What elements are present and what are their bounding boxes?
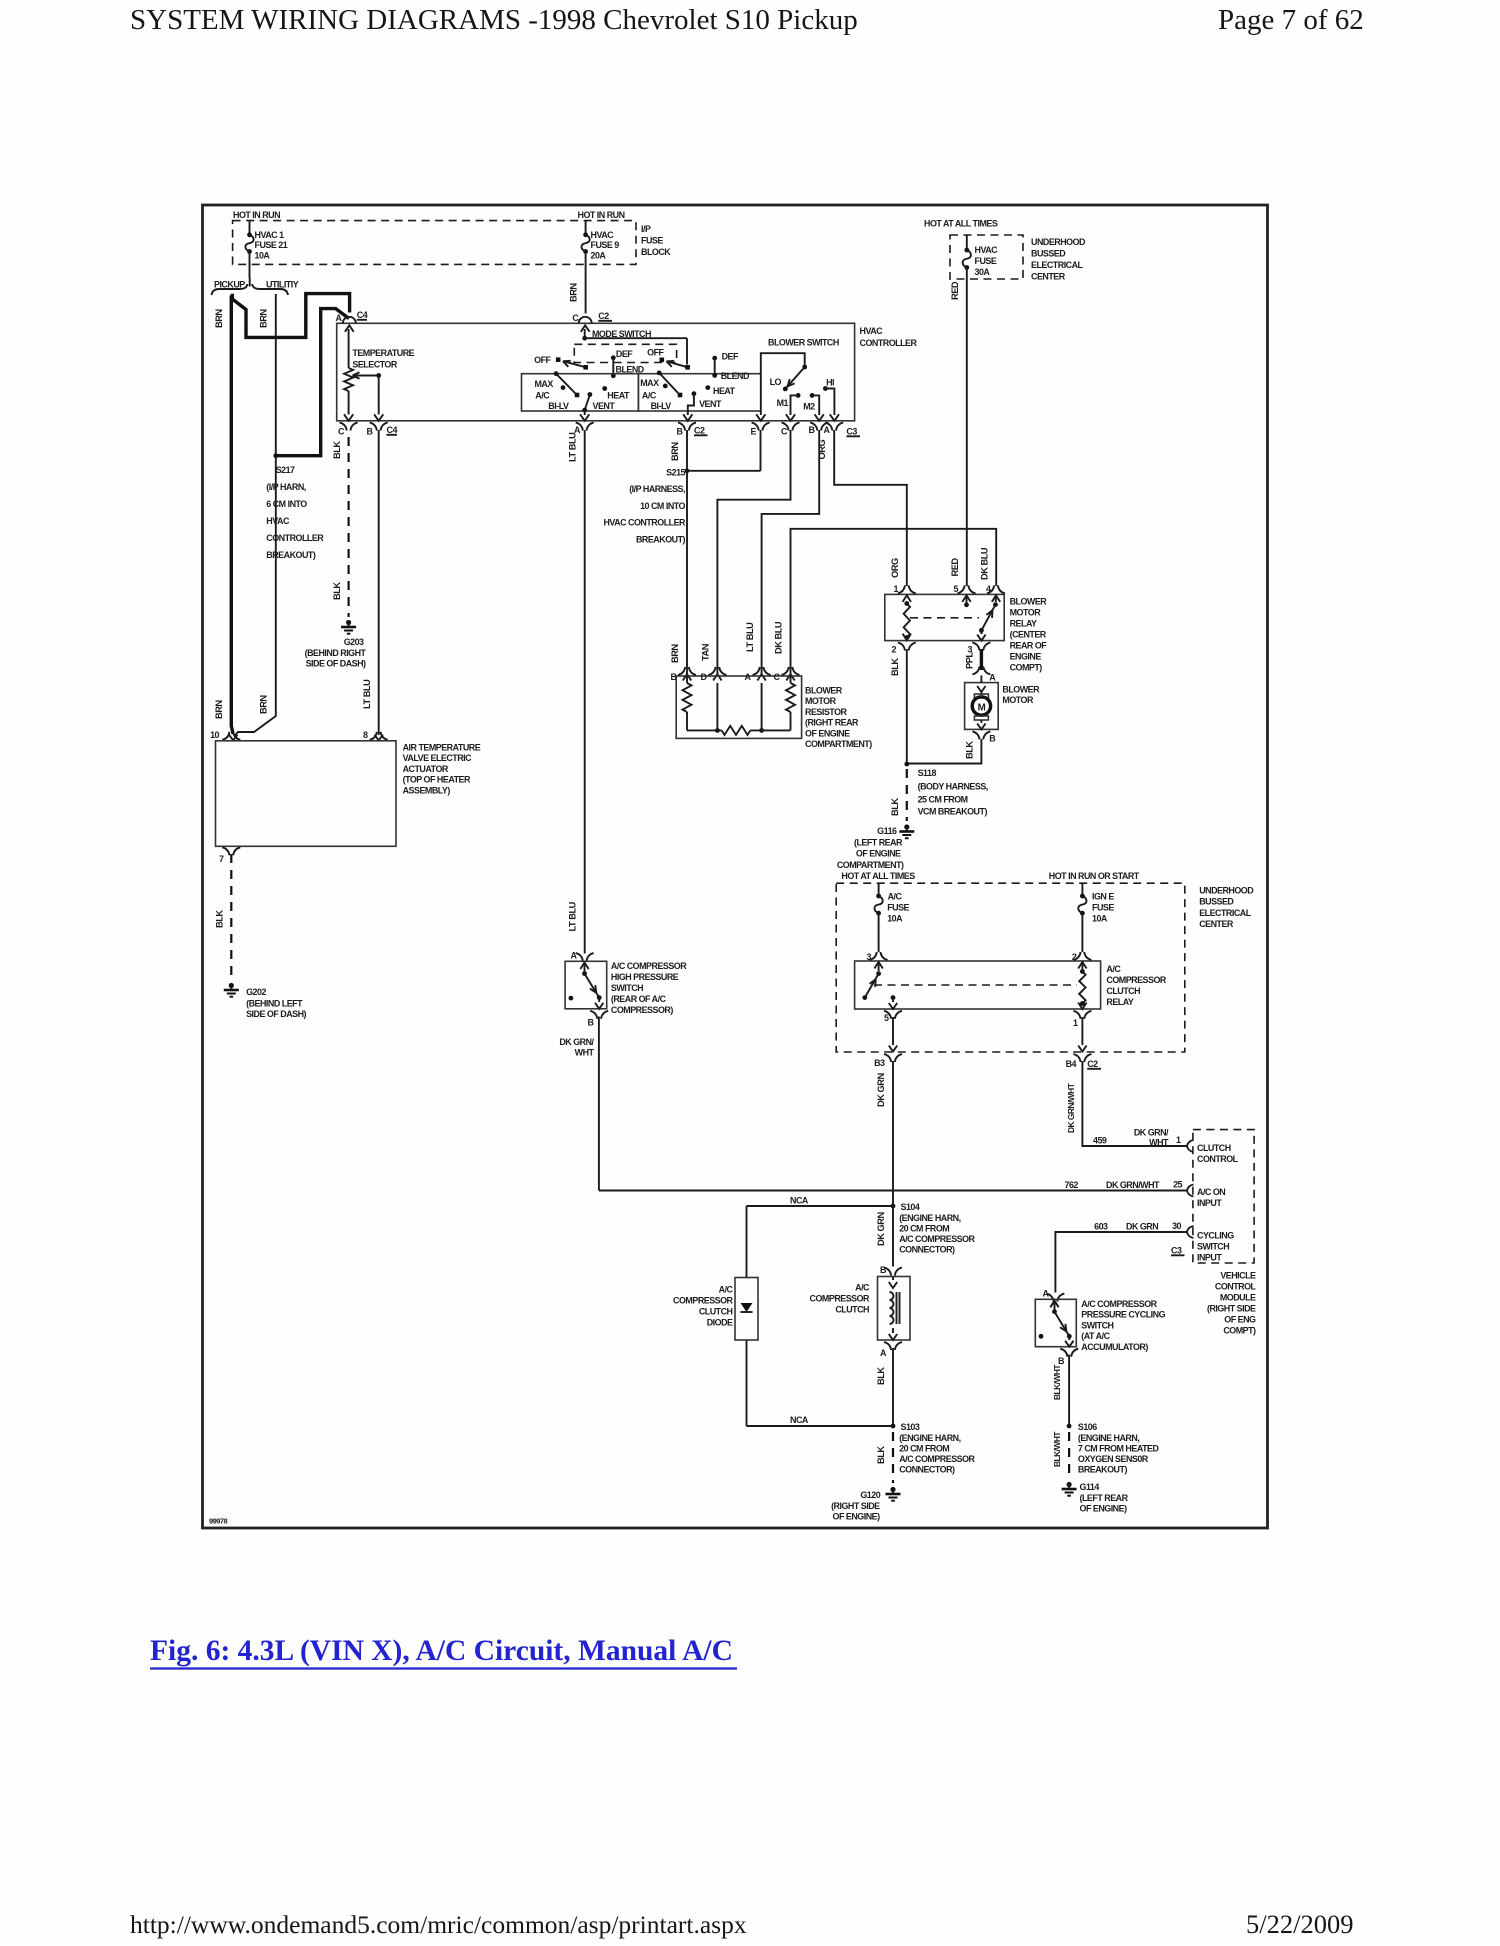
wire BLK clutch to S103: [892, 1348, 894, 1426]
VCM bracket pin25: [1187, 1185, 1194, 1197]
svg-text:S215: S215: [666, 468, 685, 478]
svg-text:HVAC: HVAC: [975, 245, 999, 255]
svg-text:INPUT: INPUT: [1197, 1253, 1222, 1263]
svg-text:B3: B3: [874, 1058, 885, 1068]
splice S215: [685, 468, 690, 473]
svg-text:20 CM FROM: 20 CM FROM: [899, 1444, 949, 1454]
pickup-utility split tick: [249, 278, 251, 287]
relay coil: [904, 601, 909, 606]
wire BLK/WHT S106 to G114: [1068, 1432, 1070, 1478]
svg-text:BLK: BLK: [332, 441, 342, 459]
svg-text:BLK: BLK: [214, 910, 224, 928]
wire BRN from C2-B with splice S215: [686, 430, 688, 674]
svg-text:S106: S106: [1078, 1422, 1097, 1432]
clutch relay dashed link: [874, 984, 1077, 986]
svg-text:OF ENGINE): OF ENGINE): [1080, 1504, 1128, 1514]
svg-text:ELECTRICAL: ELECTRICAL: [1031, 260, 1084, 270]
ground G114: [1067, 1482, 1072, 1487]
svg-text:A/C: A/C: [535, 391, 550, 401]
clutch relay contact to pin5: [891, 995, 896, 1000]
relay pin5: [958, 585, 965, 593]
svg-text:BRN: BRN: [258, 695, 268, 714]
svg-text:DK GRN: DK GRN: [1126, 1222, 1158, 1232]
svg-text:A: A: [745, 672, 752, 682]
svg-text:(LEFT REAR: (LEFT REAR: [1080, 1493, 1129, 1503]
svg-text:1: 1: [1176, 1135, 1181, 1145]
svg-text:A: A: [989, 673, 996, 683]
svg-text:DEF: DEF: [616, 349, 633, 359]
svg-text:C4: C4: [357, 310, 368, 320]
svg-text:C: C: [781, 427, 788, 437]
svg-text:10 CM INTO: 10 CM INTO: [640, 501, 685, 511]
A/C compressor clutch diode box: [735, 1278, 758, 1341]
svg-text:ACTUATOR: ACTUATOR: [403, 764, 449, 774]
wire ORG from C3-A to relay pin1: [834, 430, 907, 586]
svg-text:A: A: [824, 425, 831, 435]
svg-text:BRN: BRN: [258, 309, 268, 328]
air temperature valve actuator box: [216, 741, 397, 847]
svg-text:OF ENG: OF ENG: [1224, 1315, 1256, 1325]
VCM bracket pin30: [1187, 1226, 1194, 1238]
svg-text:BRN: BRN: [214, 309, 224, 328]
actuator pin7: [222, 847, 229, 855]
high pressure switch box: [565, 961, 607, 1009]
svg-text:CONNECTOR): CONNECTOR): [899, 1465, 955, 1475]
svg-text:RELAY: RELAY: [1106, 997, 1133, 1007]
svg-text:AIR TEMPERATURE: AIR TEMPERATURE: [403, 743, 481, 753]
svg-text:HVAC 1: HVAC 1: [255, 230, 285, 240]
brace utility: [252, 284, 288, 295]
wire BRN from C3-E: [760, 430, 762, 471]
svg-text:(I/P HARNESS,: (I/P HARNESS,: [629, 484, 685, 494]
svg-text:7: 7: [219, 854, 224, 864]
svg-text:BRN: BRN: [670, 644, 680, 663]
connector C4 pins C,B: [340, 423, 347, 431]
wire BLK motor to S118: [907, 739, 981, 764]
svg-text:ORG: ORG: [817, 440, 827, 460]
svg-text:VENT: VENT: [699, 399, 722, 409]
svg-text:C3: C3: [846, 427, 857, 437]
svg-text:B: B: [1058, 1356, 1065, 1366]
svg-text:FUSE 9: FUSE 9: [591, 240, 620, 250]
svg-text:MOTOR: MOTOR: [1010, 608, 1042, 618]
svg-text:CONTROLLER: CONTROLLER: [266, 533, 324, 543]
blower motor resistor box: [676, 676, 801, 738]
svg-text:M1: M1: [777, 398, 789, 408]
diagram border frame: [203, 205, 1268, 1528]
svg-text:TAN: TAN: [701, 643, 711, 661]
svg-text:CONTROL: CONTROL: [1215, 1282, 1257, 1292]
svg-text:(ENGINE HARN,: (ENGINE HARN,: [899, 1213, 960, 1223]
blower switch M2 contact: [810, 393, 815, 398]
svg-text:ORG: ORG: [890, 558, 900, 578]
splice S118: [904, 762, 909, 767]
svg-text:BLOCK: BLOCK: [641, 247, 671, 257]
svg-text:S217: S217: [276, 465, 295, 475]
svg-text:DEF: DEF: [722, 352, 739, 362]
wire LT BLU from C3-B: [762, 430, 820, 674]
svg-text:CENTER: CENTER: [1031, 272, 1066, 282]
svg-text:CLUTCH: CLUTCH: [699, 1307, 733, 1317]
svg-text:BLOWER: BLOWER: [1002, 685, 1040, 695]
svg-text:HOT IN RUN: HOT IN RUN: [578, 210, 625, 220]
svg-text:CYCLING: CYCLING: [1197, 1231, 1234, 1241]
svg-text:C: C: [572, 313, 579, 323]
svg-text:A: A: [1043, 1289, 1050, 1299]
svg-text:1: 1: [894, 584, 899, 594]
svg-text:G116: G116: [877, 826, 897, 836]
wire BRN utility down to S217 and pin 10: [234, 294, 276, 737]
svg-text:COMPRESSOR): COMPRESSOR): [611, 1005, 673, 1015]
svg-text:LT BLU: LT BLU: [362, 679, 372, 709]
svg-text:VALVE ELECTRIC: VALVE ELECTRIC: [403, 753, 473, 763]
svg-text:B: B: [367, 427, 374, 437]
svg-text:A: A: [571, 951, 578, 961]
svg-text:A/C COMPRESSOR: A/C COMPRESSOR: [899, 1234, 975, 1244]
svg-text:HVAC: HVAC: [266, 516, 290, 526]
connector C2 pins A,B: [576, 423, 583, 431]
svg-text:M2: M2: [803, 402, 815, 412]
svg-text:BRN: BRN: [670, 442, 680, 461]
ground G116: [904, 824, 909, 829]
svg-text:FUSE: FUSE: [641, 236, 663, 246]
svg-text:FUSE: FUSE: [1092, 903, 1114, 913]
svg-text:PICKUP: PICKUP: [214, 280, 245, 290]
wire PPL relay pin3 to motor: [980, 649, 983, 670]
svg-text:G120: G120: [860, 1490, 880, 1500]
A/C compressor clutch box: [878, 1277, 911, 1341]
svg-text:CONTROLLER: CONTROLLER: [860, 338, 918, 348]
svg-text:10A: 10A: [255, 251, 271, 261]
svg-text:B: B: [880, 1265, 887, 1275]
A/C compressor pressure cycling switch box: [1035, 1299, 1076, 1346]
wire RED fuse30A to relay pin5: [966, 279, 968, 586]
svg-text:30: 30: [1172, 1221, 1181, 1231]
svg-text:BREAKOUT): BREAKOUT): [266, 550, 316, 560]
svg-text:HOT IN RUN: HOT IN RUN: [233, 210, 280, 220]
svg-text:COMPRESSOR: COMPRESSOR: [673, 1296, 734, 1306]
svg-text:B: B: [671, 672, 678, 682]
svg-text:BLK/WHT: BLK/WHT: [1052, 1431, 1062, 1467]
svg-text:C: C: [338, 427, 345, 437]
svg-text:BLK: BLK: [890, 658, 900, 676]
relay pin2: [903, 634, 911, 641]
svg-text:RELAY: RELAY: [1010, 619, 1037, 629]
svg-text:BUSSED: BUSSED: [1031, 249, 1066, 259]
svg-text:762: 762: [1065, 1180, 1079, 1190]
svg-text:Fig. 6: 4.3L (VIN X), A/C Circ: Fig. 6: 4.3L (VIN X), A/C Circuit, Manua…: [150, 1635, 733, 1667]
svg-text:5/22/2009: 5/22/2009: [1246, 1909, 1353, 1939]
relay pin1: [898, 585, 905, 593]
ground G202: [229, 983, 234, 988]
svg-text:OFF: OFF: [647, 348, 664, 358]
wire DK BLU resistor pinC to relay pin4: [791, 529, 997, 674]
svg-text:BREAKOUT): BREAKOUT): [1078, 1465, 1128, 1475]
svg-text:REAR OF: REAR OF: [1010, 641, 1048, 651]
mode switch feed dot and line: [584, 329, 586, 338]
svg-text:TEMPERATURE: TEMPERATURE: [352, 348, 414, 358]
fuse A/C 10A: [878, 883, 880, 895]
svg-text:MODE SWITCH: MODE SWITCH: [592, 329, 651, 339]
svg-text:VEHICLE: VEHICLE: [1220, 1271, 1256, 1281]
left rotary contacts: [554, 371, 559, 376]
resistor bottom bus: [687, 729, 722, 731]
svg-text:(BEHIND LEFT: (BEHIND LEFT: [246, 999, 303, 1009]
svg-text:RED: RED: [950, 281, 960, 300]
svg-text:UTILITIY: UTILITIY: [266, 280, 299, 290]
svg-text:PPL: PPL: [965, 652, 975, 669]
svg-text:COMPT): COMPT): [1223, 1326, 1256, 1336]
connector C2 pin C bump: [579, 317, 592, 324]
svg-text:C2: C2: [1087, 1059, 1098, 1069]
svg-text:FUSE: FUSE: [887, 903, 909, 913]
fuse F21 HVAC 1 10A: [249, 221, 251, 234]
I/P fuse block dashed box: [233, 221, 636, 265]
svg-text:BLK: BLK: [876, 1446, 886, 1464]
svg-text:OF ENGINE: OF ENGINE: [805, 728, 850, 738]
wire TAN from C3-C: [717, 430, 790, 674]
VCM bracket pin1: [1187, 1140, 1194, 1152]
svg-text:COMPRESSOR: COMPRESSOR: [1106, 975, 1167, 985]
svg-text:NCA: NCA: [790, 1196, 809, 1206]
clutch coil symbol: [890, 1292, 894, 1324]
svg-text:A/C ON: A/C ON: [1197, 1187, 1225, 1197]
svg-text:BLK: BLK: [965, 741, 975, 759]
blower motor pinB: [972, 731, 979, 739]
svg-text:(I/P HARN,: (I/P HARN,: [266, 482, 305, 492]
svg-text:UNDERHOOD: UNDERHOOD: [1031, 237, 1086, 247]
svg-text:HOT AT ALL TIMES: HOT AT ALL TIMES: [924, 219, 998, 229]
connector B4 C2: [1073, 1054, 1080, 1062]
VCM dashed box: [1193, 1130, 1254, 1263]
svg-text:FUSE: FUSE: [975, 256, 997, 266]
svg-text:B4: B4: [1066, 1059, 1077, 1069]
svg-text:DIODE: DIODE: [707, 1318, 733, 1328]
svg-text:http://www.ondemand5.com/mric/: http://www.ondemand5.com/mric/common/asp…: [130, 1910, 747, 1939]
svg-text:5: 5: [884, 1013, 889, 1023]
wire NCA to diode: [746, 1206, 748, 1278]
svg-text:(RIGHT REAR: (RIGHT REAR: [805, 718, 859, 728]
svg-text:SELECTOR: SELECTOR: [352, 360, 397, 370]
fuse F9 HVAC FUSE 9 20A: [585, 221, 587, 234]
svg-text:B: B: [677, 427, 684, 437]
svg-text:C: C: [774, 672, 781, 682]
relay pin4 and switch arm: [987, 585, 994, 593]
svg-text:BREAKOUT): BREAKOUT): [636, 534, 686, 544]
svg-text:C3: C3: [1171, 1246, 1182, 1256]
blower switch M1 contact: [796, 393, 801, 398]
svg-text:OXYGEN SENS0R: OXYGEN SENS0R: [1078, 1454, 1149, 1464]
svg-text:20 CM FROM: 20 CM FROM: [899, 1224, 949, 1234]
svg-text:HEAT: HEAT: [713, 386, 736, 396]
svg-text:CONNECTOR): CONNECTOR): [899, 1245, 955, 1255]
wire BRN pickup down to actuator pin 10: [231, 296, 233, 735]
relay dashed link: [910, 617, 979, 619]
svg-text:G202: G202: [246, 987, 266, 997]
svg-text:CONTROL: CONTROL: [1197, 1154, 1239, 1164]
svg-text:BUSSED: BUSSED: [1199, 897, 1234, 907]
mode switch rotary body left: [522, 374, 639, 411]
svg-text:COMPARTMENT): COMPARTMENT): [805, 739, 872, 749]
svg-text:603: 603: [1094, 1222, 1108, 1232]
temperature selector wiper: [353, 372, 360, 378]
svg-text:(CENTER: (CENTER: [1010, 630, 1047, 640]
svg-text:A/C: A/C: [1106, 964, 1121, 974]
svg-text:LT BLU: LT BLU: [568, 432, 578, 462]
svg-text:I/P: I/P: [641, 224, 651, 234]
svg-text:ELECTRICAL: ELECTRICAL: [1199, 908, 1252, 918]
svg-text:A/C COMPRESSOR: A/C COMPRESSOR: [899, 1454, 975, 1464]
UBEC dashed box: [836, 883, 1185, 1052]
wire BLK S103 to G120: [892, 1432, 894, 1483]
svg-text:4: 4: [986, 584, 991, 594]
cycling switch connector B: [1060, 1349, 1067, 1357]
svg-text:WHT: WHT: [575, 1048, 595, 1058]
svg-text:D: D: [701, 672, 708, 682]
blower motor box: [965, 683, 999, 730]
svg-text:G114: G114: [1080, 1482, 1100, 1492]
svg-text:DK BLU: DK BLU: [774, 621, 784, 654]
svg-text:HVAC: HVAC: [860, 326, 884, 336]
svg-text:(BODY HARNESS,: (BODY HARNESS,: [918, 782, 988, 792]
svg-text:RESISTOR: RESISTOR: [805, 707, 848, 717]
svg-text:S104: S104: [901, 1202, 920, 1212]
clutch relay pin1 out: [1073, 1011, 1080, 1019]
svg-text:IGN E: IGN E: [1092, 892, 1114, 902]
svg-text:B: B: [809, 425, 816, 435]
svg-text:C2: C2: [598, 311, 609, 321]
svg-text:HOT AT ALL TIMES: HOT AT ALL TIMES: [841, 871, 915, 881]
svg-text:A/C: A/C: [855, 1283, 870, 1293]
svg-text:E: E: [751, 427, 757, 437]
svg-text:SIDE OF DASH): SIDE OF DASH): [246, 1009, 306, 1019]
svg-text:ENGINE: ENGINE: [1010, 652, 1042, 662]
wire LT BLU C4-B to pin8: [378, 430, 380, 735]
svg-text:A: A: [336, 313, 343, 323]
svg-text:BLK/WHT: BLK/WHT: [1052, 1364, 1062, 1400]
svg-text:SIDE OF DASH): SIDE OF DASH): [306, 659, 366, 669]
svg-text:A/C: A/C: [888, 892, 903, 902]
svg-text:LO: LO: [770, 377, 782, 387]
wire BLK relay pin2 to S118: [906, 649, 908, 764]
wire BLK pin7 to G202: [230, 854, 232, 979]
svg-text:BLOWER SWITCH: BLOWER SWITCH: [768, 338, 839, 348]
svg-text:CENTER: CENTER: [1199, 919, 1234, 929]
mode switch dashed box: [574, 344, 676, 362]
svg-text:S103: S103: [901, 1422, 920, 1432]
svg-text:BI-LV: BI-LV: [548, 401, 569, 411]
connector B3: [884, 1054, 891, 1062]
wire BRN pickup branch to C4-A: [232, 294, 349, 338]
svg-text:B: B: [989, 734, 996, 744]
svg-text:6 CM INTO: 6 CM INTO: [266, 499, 307, 509]
wire BLK C4-C to G203: [348, 437, 350, 617]
svg-text:C4: C4: [387, 425, 398, 435]
wire diode to NCA2: [746, 1340, 748, 1426]
svg-text:10A: 10A: [1092, 914, 1108, 924]
svg-text:MAX: MAX: [640, 378, 659, 388]
svg-text:BLK: BLK: [332, 582, 342, 600]
svg-text:COMPT): COMPT): [1010, 663, 1043, 673]
wire DK GRN B3 to S104: [892, 1061, 894, 1267]
clutch connector A: [884, 1342, 891, 1350]
svg-text:A/C COMPRESSOR: A/C COMPRESSOR: [1081, 1299, 1157, 1309]
svg-text:UNDERHOOD: UNDERHOOD: [1199, 886, 1254, 896]
svg-text:BLEND: BLEND: [616, 364, 645, 374]
svg-text:Page 7 of 62: Page 7 of 62: [1218, 4, 1364, 36]
underhood fuse dashed box: [950, 235, 1023, 279]
svg-text:HOT IN RUN OR START: HOT IN RUN OR START: [1049, 871, 1140, 881]
splice S103: [891, 1424, 896, 1429]
svg-text:2: 2: [892, 645, 897, 655]
svg-text:PRESSURE CYCLING: PRESSURE CYCLING: [1081, 1310, 1165, 1320]
svg-text:8: 8: [363, 730, 368, 740]
svg-text:(RIGHT SIDE: (RIGHT SIDE: [831, 1501, 880, 1511]
svg-text:(TOP OF HEATER: (TOP OF HEATER: [403, 775, 471, 785]
wire thick S217 to C4-A: [276, 309, 349, 456]
svg-text:(BEHIND RIGHT: (BEHIND RIGHT: [305, 648, 367, 658]
svg-text:10A: 10A: [887, 914, 903, 924]
svg-text:ASSEMBLY): ASSEMBLY): [403, 785, 451, 795]
svg-text:(LEFT REAR: (LEFT REAR: [854, 838, 903, 848]
blower motor relay box: [885, 594, 1004, 640]
svg-text:A: A: [880, 1348, 887, 1358]
wire DK GRN/WHT 762 line: [599, 1190, 1187, 1192]
svg-text:(REAR OF A/C: (REAR OF A/C: [611, 994, 667, 1004]
svg-text:BLOWER: BLOWER: [1010, 597, 1048, 607]
svg-text:FUSE 21: FUSE 21: [255, 240, 288, 250]
svg-text:C2: C2: [694, 426, 705, 436]
ground G203: [346, 620, 351, 625]
svg-text:DK GRN/: DK GRN/: [1134, 1128, 1169, 1138]
svg-text:OF ENGINE: OF ENGINE: [856, 849, 901, 859]
A/C compressor clutch relay box: [855, 961, 1101, 1009]
HVAC controller box: [337, 323, 855, 421]
svg-text:25: 25: [1173, 1180, 1182, 1190]
high pressure switch connector B: [590, 1011, 597, 1019]
svg-text:S118: S118: [918, 768, 937, 778]
svg-text:HI: HI: [826, 378, 834, 388]
wire DK GRN/WHT B4 to VCM pin1: [1082, 1061, 1186, 1146]
svg-text:B: B: [588, 1018, 595, 1028]
ground G120: [890, 1487, 895, 1492]
svg-text:HVAC CONTROLLER: HVAC CONTROLLER: [603, 518, 686, 528]
svg-text:A/C: A/C: [719, 1285, 734, 1295]
svg-text:M: M: [978, 703, 986, 714]
splice S104: [891, 1204, 896, 1209]
svg-text:RED: RED: [950, 558, 960, 577]
svg-text:BRN: BRN: [214, 700, 224, 719]
svg-text:G203: G203: [344, 637, 364, 647]
svg-text:DK BLU: DK BLU: [979, 547, 989, 580]
svg-text:VCM BREAKOUT): VCM BREAKOUT): [918, 807, 988, 817]
fuse IGN E 10A: [1081, 883, 1083, 895]
svg-text:(ENGINE HARN,: (ENGINE HARN,: [1078, 1433, 1139, 1443]
svg-text:459: 459: [1093, 1136, 1107, 1146]
svg-text:BRN: BRN: [569, 283, 579, 302]
svg-text:DK GRN/WHT: DK GRN/WHT: [1066, 1082, 1076, 1133]
svg-text:LT BLU: LT BLU: [745, 622, 755, 652]
svg-text:7 CM FROM HEATED: 7 CM FROM HEATED: [1078, 1444, 1160, 1454]
fuse HVAC 30A: [966, 235, 968, 249]
clutch relay pin5 out: [884, 1011, 891, 1019]
svg-text:INPUT: INPUT: [1197, 1198, 1222, 1208]
resistor element left: [686, 676, 688, 683]
svg-text:DK GRN: DK GRN: [876, 1212, 886, 1246]
svg-text:DK GRN/WHT: DK GRN/WHT: [1106, 1180, 1160, 1190]
right rotary contacts: [657, 371, 662, 376]
svg-text:99978: 99978: [209, 1517, 228, 1526]
